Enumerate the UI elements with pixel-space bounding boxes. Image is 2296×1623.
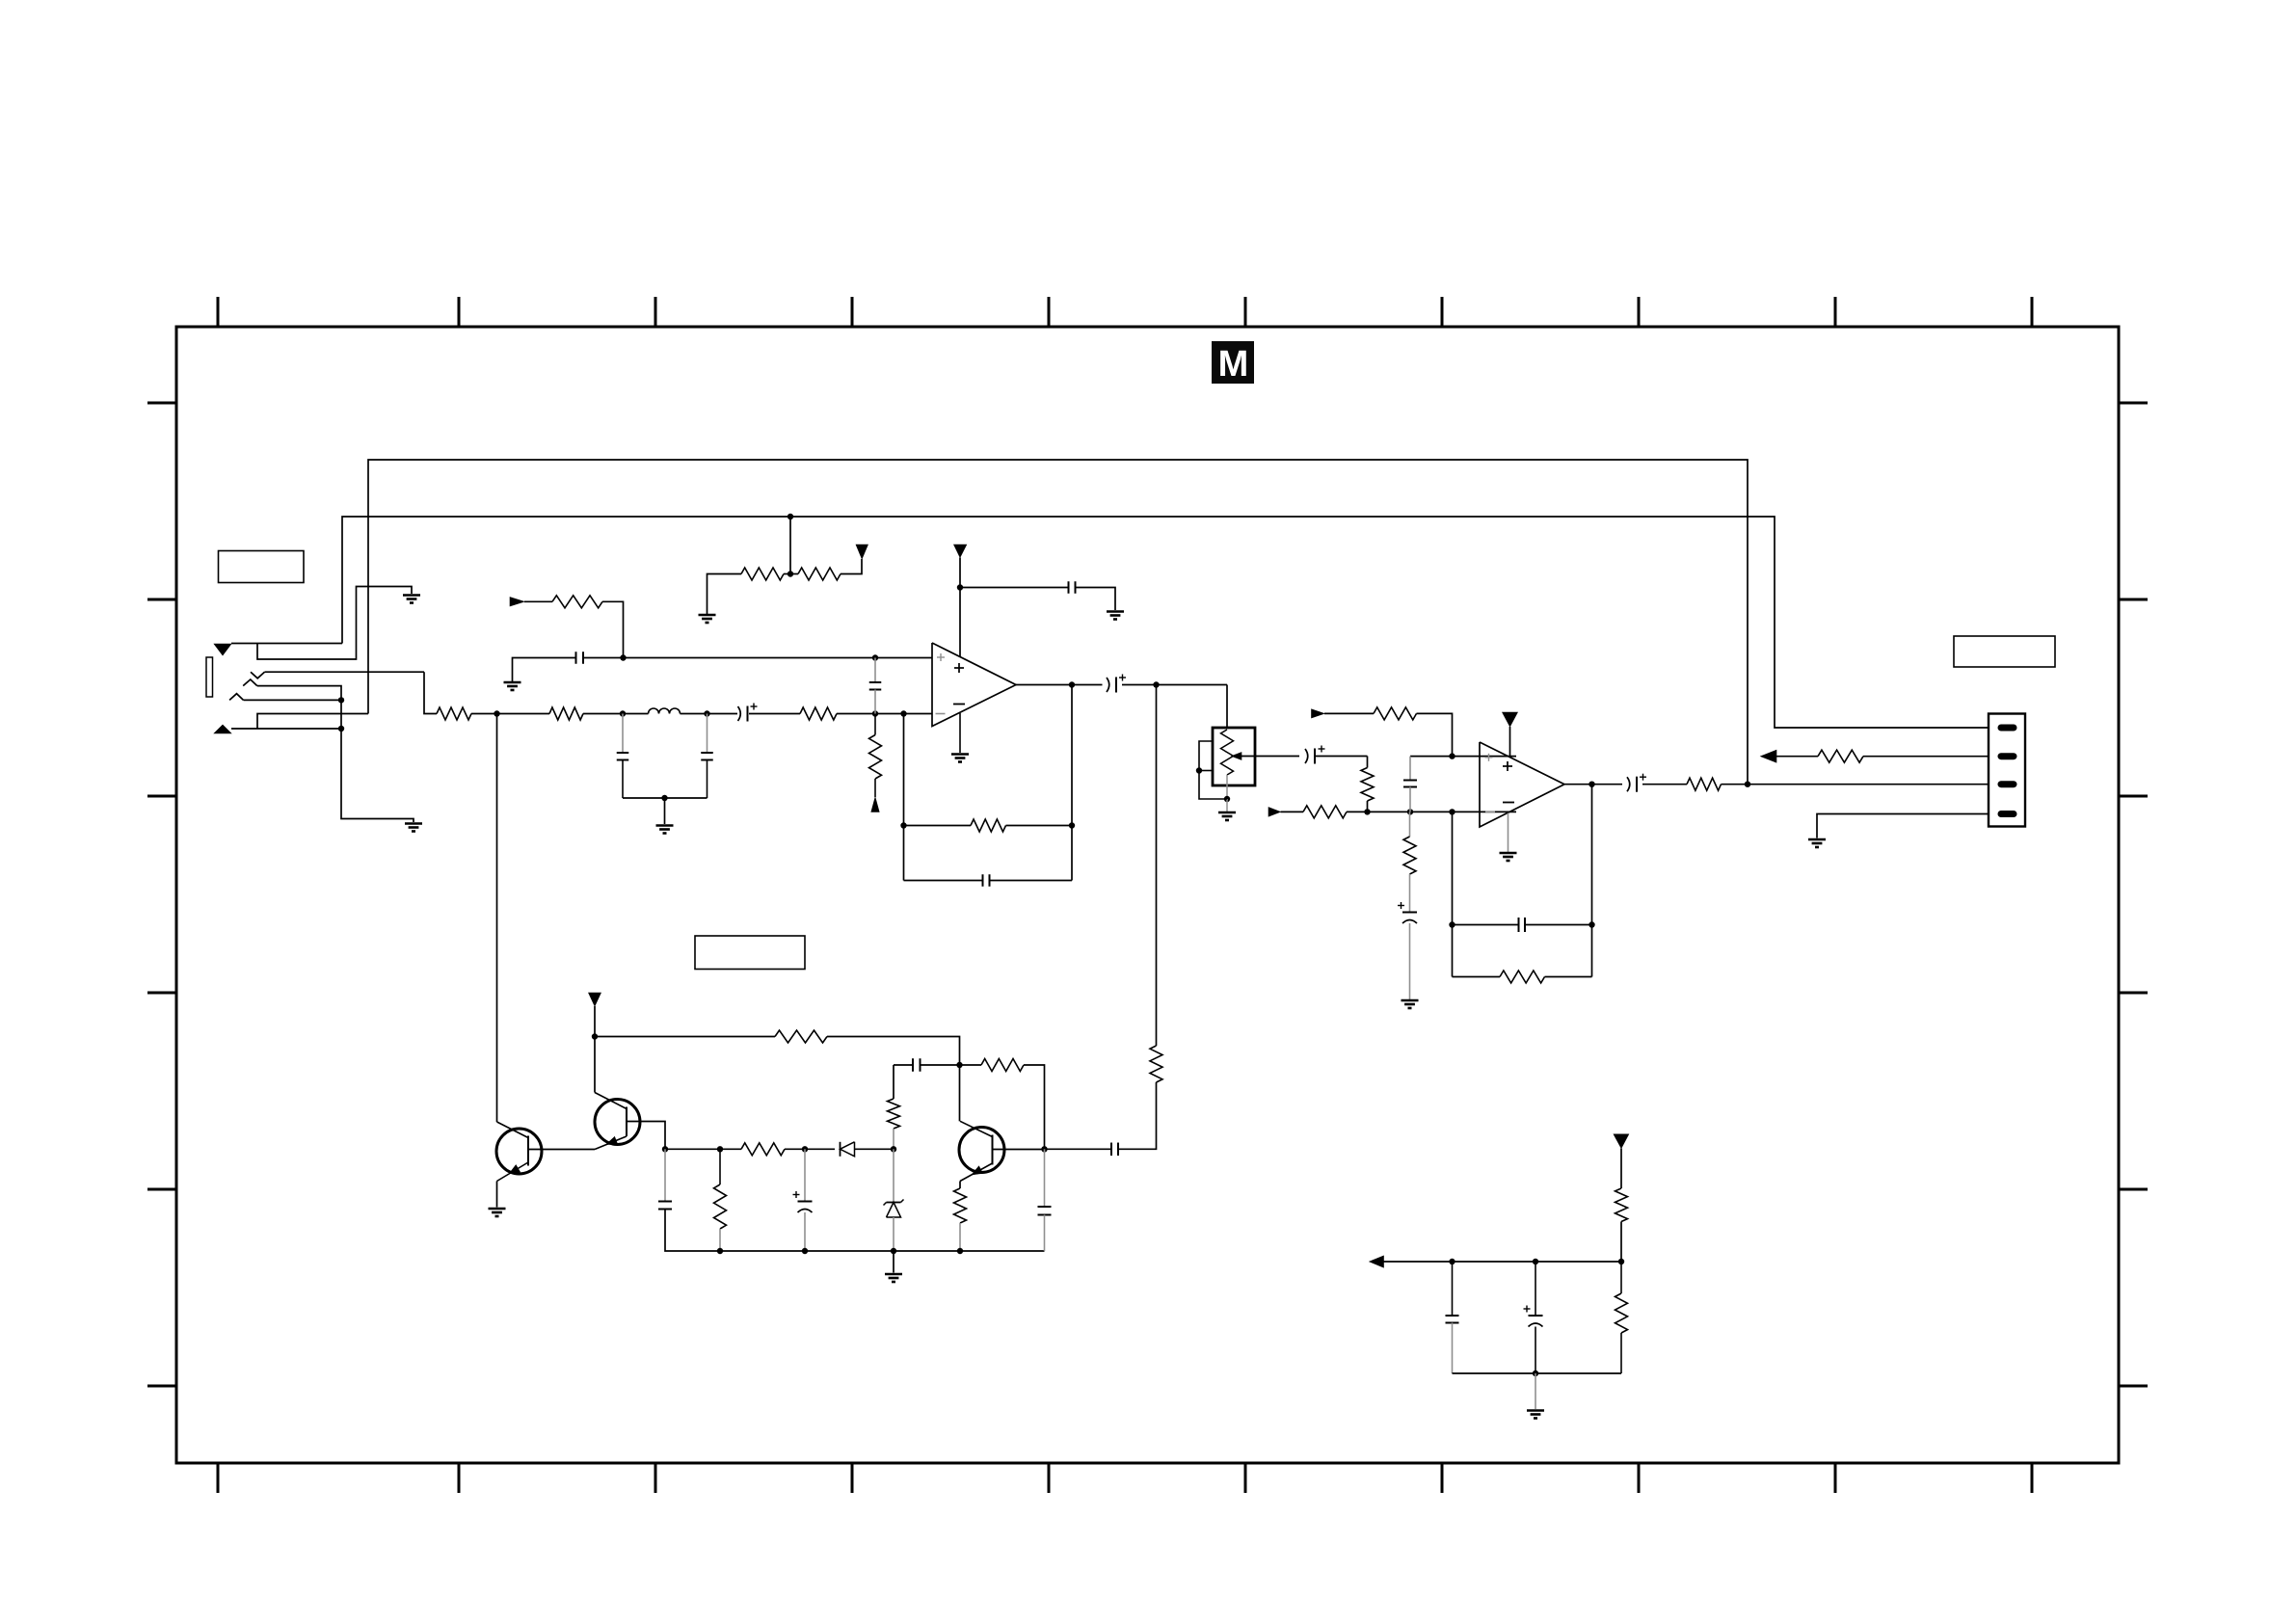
svg-text:M: M [1218, 344, 1249, 385]
